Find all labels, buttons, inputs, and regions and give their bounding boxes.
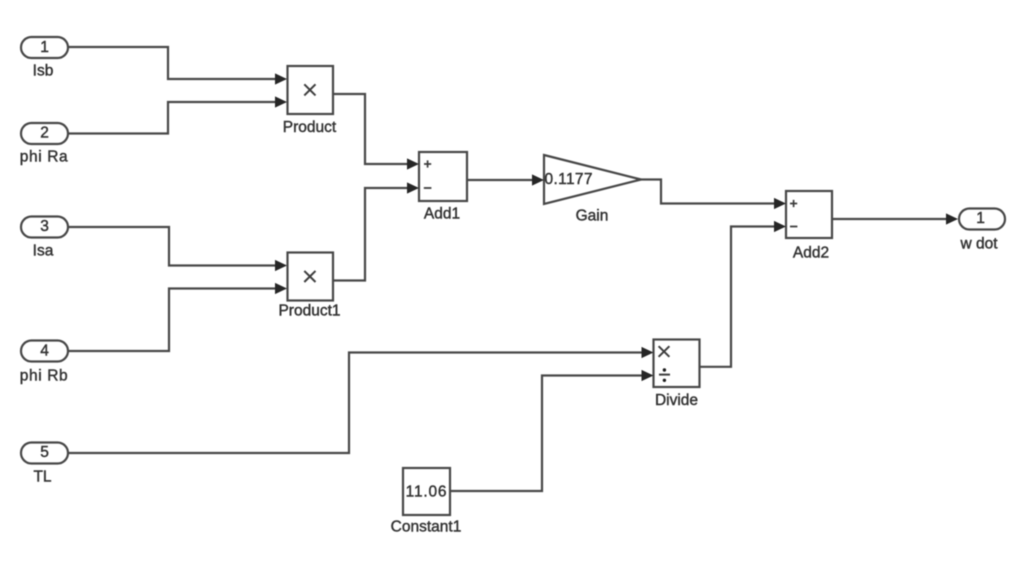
symbol divide dots in Divide	[663, 368, 666, 371]
arrowhead into Product1 in2	[275, 283, 287, 294]
block Product	[288, 66, 334, 114]
wire Gain out to Add2 plus	[641, 180, 775, 204]
svg-text:4: 4	[40, 343, 49, 360]
arrowhead into Add2 plus	[774, 198, 786, 209]
arrowhead into Divide in1	[642, 347, 654, 358]
svg-text:TL: TL	[33, 469, 51, 486]
block Gain triangle	[544, 155, 641, 204]
arrowhead into Product in2	[275, 96, 287, 107]
arrowhead into Gain	[532, 174, 544, 185]
wire Constant1 out to Divide in2	[450, 376, 642, 492]
block Product1	[288, 253, 334, 301]
svg-text:Product1: Product1	[278, 303, 340, 320]
wire phi Ra to Product in2	[68, 102, 276, 134]
arrowhead into Add1 minus	[407, 182, 419, 193]
svg-text:Add2: Add2	[793, 245, 829, 262]
svg-text:w dot: w dot	[959, 236, 998, 253]
svg-text:5: 5	[40, 444, 49, 461]
wire Divide out to Add2 minus	[700, 227, 776, 367]
inport 5 TL	[21, 443, 68, 464]
symbol minus in Add2	[790, 226, 797, 228]
outport 1 w dot	[959, 209, 1005, 230]
svg-text:2: 2	[40, 125, 49, 142]
inport 4 phi Rb	[21, 341, 68, 362]
svg-text:1: 1	[976, 210, 985, 227]
block Divide	[654, 340, 700, 388]
svg-text:Gain: Gain	[576, 208, 609, 225]
svg-text:Add1: Add1	[424, 206, 460, 223]
symbol divide in Divide	[659, 374, 670, 376]
block Add2	[786, 191, 832, 238]
symbol plus in Add1	[424, 160, 431, 167]
svg-text:0.1177: 0.1177	[545, 171, 593, 188]
inport 1 Isb	[21, 37, 68, 58]
symbol x in Product	[304, 84, 315, 95]
symbol minus in Add1	[424, 187, 432, 189]
wire TL to Divide in1	[68, 353, 642, 454]
wire Product1 out to Add1 minus	[333, 188, 408, 281]
svg-text:Isb: Isb	[33, 63, 54, 80]
svg-text:phi Rb: phi Rb	[20, 368, 68, 385]
symbol x in Product1	[304, 271, 315, 282]
wire Isa to Product1 in1	[68, 227, 276, 266]
svg-text:Divide: Divide	[655, 392, 698, 409]
wire Isb to Product in1	[68, 47, 276, 79]
svg-text:11.06: 11.06	[406, 484, 448, 501]
wire phi Rb to Product1 in2	[68, 289, 276, 352]
inport 3 Isa	[21, 217, 68, 238]
svg-text:Product: Product	[283, 119, 337, 136]
symbol x in Divide	[659, 346, 670, 357]
block Add1	[419, 152, 467, 201]
svg-text:phi Ra: phi Ra	[20, 149, 68, 166]
svg-text:Constant1: Constant1	[391, 519, 462, 536]
wire Add1 out to Gain	[467, 179, 533, 181]
svg-text:Isa: Isa	[33, 243, 54, 260]
arrowhead into Add2 minus	[774, 221, 786, 232]
arrowhead into outport	[946, 213, 958, 224]
arrowhead into Product in1	[275, 73, 287, 84]
symbol plus in Add2	[790, 200, 797, 207]
arrowhead into Divide in2	[642, 370, 654, 381]
block Constant1	[403, 468, 450, 515]
arrowhead into Add1 plus	[407, 158, 419, 169]
wire Product out to Add1 plus	[333, 94, 408, 164]
arrowhead into Product1 in1	[275, 260, 287, 271]
inport 2 phi Ra	[21, 123, 68, 144]
wire Add2 out to outport	[832, 218, 947, 220]
svg-text:1: 1	[40, 39, 49, 56]
svg-text:3: 3	[40, 218, 49, 235]
